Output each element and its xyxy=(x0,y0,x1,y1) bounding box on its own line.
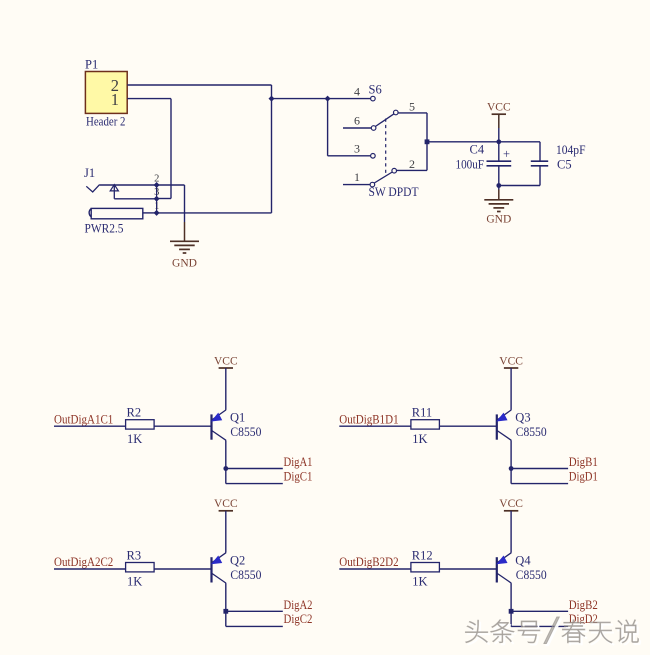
junction at collector outputs xyxy=(509,609,514,614)
transistor Q3 C8550 (PNP) xyxy=(497,410,547,440)
svg-text:2: 2 xyxy=(409,157,415,171)
svg-text:C8550: C8550 xyxy=(516,425,547,439)
wire: junction down xyxy=(225,611,227,626)
power symbol VCC xyxy=(499,498,523,511)
svg-text:DigC2: DigC2 xyxy=(284,612,313,626)
svg-text:R11: R11 xyxy=(412,406,432,420)
svg-text:3: 3 xyxy=(354,142,360,156)
wire: vertical bus from P1 pin2 down to sleeve wire xyxy=(271,85,273,213)
switch pin 5 contact xyxy=(394,110,399,115)
wire: P1 pin 1 right xyxy=(127,98,171,100)
wire: switch output to C5 corner xyxy=(427,141,540,143)
switch pin 3 contact xyxy=(371,154,376,159)
resistor R3 1K xyxy=(126,548,155,588)
wire: net label stub xyxy=(54,425,126,427)
switch pin 1 contact xyxy=(370,182,375,187)
wire: to ground xyxy=(498,186,500,190)
wire: resistor to base xyxy=(154,568,211,570)
switch pin 2 contact xyxy=(392,168,397,173)
transistor Q1 C8550 (PNP) xyxy=(212,410,262,440)
svg-text:DigA2: DigA2 xyxy=(284,598,313,612)
svg-text:1K: 1K xyxy=(127,575,142,589)
svg-text:C8550: C8550 xyxy=(230,425,261,439)
wire: J1 pin2 to ground drop xyxy=(157,184,185,186)
svg-text:Q3: Q3 xyxy=(515,411,530,425)
wire: collector down xyxy=(225,440,227,468)
wire: down to J1 tip contact xyxy=(170,99,172,199)
wire: net label stub xyxy=(339,568,411,570)
wire: C4 bottom stem xyxy=(498,166,500,186)
svg-text:1K: 1K xyxy=(127,432,142,446)
connector J1 (PWR2.5 barrel jack) xyxy=(84,166,157,236)
svg-text:C8550: C8550 xyxy=(230,568,261,582)
ground symbol below C4 xyxy=(484,200,513,226)
wire: J1 sleeve to vertical bus xyxy=(157,212,272,214)
junction J1 pin 1 xyxy=(154,210,160,216)
svg-text:R2: R2 xyxy=(127,406,142,420)
svg-text:DigA1: DigA1 xyxy=(284,455,313,469)
junction at collector outputs xyxy=(223,609,228,614)
wire: resistor to base xyxy=(154,425,211,427)
junction J1 pin 2 xyxy=(154,182,160,188)
svg-text:VCC: VCC xyxy=(499,355,523,367)
svg-text:DigC1: DigC1 xyxy=(284,469,313,483)
switch throw arm pin1-pin2 xyxy=(374,172,392,183)
svg-text:VCC: VCC xyxy=(214,355,238,367)
wire: VCC to emitter xyxy=(225,368,227,410)
capacitor C4 (electrolytic 100uF) xyxy=(456,143,512,172)
wire: VCC to emitter xyxy=(510,511,512,553)
wire: junction down xyxy=(510,611,512,626)
wire: VCC to emitter xyxy=(510,368,512,410)
power symbol VCC (top) xyxy=(487,102,511,115)
wire: collector down xyxy=(225,583,227,611)
junction on vertical bus at switch feed xyxy=(269,96,275,102)
resistor R11 1K xyxy=(411,406,440,446)
svg-text:OutDigB2D2: OutDigB2D2 xyxy=(339,555,398,569)
svg-text:Q2: Q2 xyxy=(230,553,245,567)
resistor R2 1K xyxy=(126,406,155,446)
svg-text:R3: R3 xyxy=(127,548,142,562)
wire: switch pin 6 stub xyxy=(343,127,371,129)
switch pin 6 contact xyxy=(371,126,376,131)
power symbol VCC xyxy=(499,355,523,368)
wire: DigA1 stub xyxy=(226,468,283,470)
switch gang dashed link xyxy=(385,119,387,174)
switch pin 4 contact xyxy=(371,96,376,101)
svg-text:DigD1: DigD1 xyxy=(569,469,598,483)
svg-text:Header 2: Header 2 xyxy=(86,115,126,129)
wire: switch pin 1 stub xyxy=(343,184,370,186)
wire: DigD2 stub xyxy=(511,625,568,627)
svg-text:SW DPDT: SW DPDT xyxy=(369,185,419,199)
wire: DigD1 stub xyxy=(511,483,568,485)
junction J1 pin 3 xyxy=(154,196,160,202)
svg-text:OutDigA2C2: OutDigA2C2 xyxy=(54,555,113,569)
svg-text:1: 1 xyxy=(354,170,360,184)
svg-text:DigB2: DigB2 xyxy=(569,598,598,612)
svg-text:1K: 1K xyxy=(412,432,427,446)
svg-text:Q4: Q4 xyxy=(515,553,531,567)
junction at C4 top xyxy=(496,139,501,144)
wire: VCC to emitter xyxy=(225,511,227,553)
junction at collector outputs xyxy=(509,466,514,471)
wire: net label stub xyxy=(54,568,126,570)
transistor Q2 C8550 (PNP) xyxy=(212,553,262,583)
wire: collector down xyxy=(510,583,512,611)
junction at switch feed xyxy=(325,96,331,102)
svg-text:1K: 1K xyxy=(412,575,427,589)
svg-text:GND: GND xyxy=(172,257,197,269)
svg-text:4: 4 xyxy=(354,85,360,99)
junction at collector outputs xyxy=(223,466,228,471)
wire: P1 pin 2 to vertical bus x=271.5 xyxy=(127,84,271,86)
svg-text:OutDigB1D1: OutDigB1D1 xyxy=(339,412,398,426)
wire: C5 bottom to junction xyxy=(499,185,540,187)
power symbol VCC xyxy=(214,355,238,368)
svg-text:VCC: VCC xyxy=(214,498,238,510)
wire: junction to switch junction xyxy=(272,98,328,100)
svg-text:OutDigA1C1: OutDigA1C1 xyxy=(54,412,113,426)
ground symbol below J1 xyxy=(170,241,199,269)
wire: junction down xyxy=(225,469,227,484)
svg-text:5: 5 xyxy=(409,100,415,114)
wire: resistor to base xyxy=(439,425,496,427)
svg-text:104pF: 104pF xyxy=(556,143,586,157)
svg-text:DigB1: DigB1 xyxy=(569,455,598,469)
svg-text:S6: S6 xyxy=(369,83,382,97)
wire: resistor to base xyxy=(439,568,496,570)
svg-text:C4: C4 xyxy=(470,143,485,157)
wire: net label stub xyxy=(339,425,411,427)
switch throw arm pin6-pin5 xyxy=(376,114,395,127)
wire: J1 pins tie bar xyxy=(156,185,158,213)
wire: pin 5 to right vertical xyxy=(398,112,427,114)
svg-text:6: 6 xyxy=(354,114,360,128)
wire: switch right vertical xyxy=(426,113,428,170)
transistor Q4 C8550 (PNP) xyxy=(497,553,547,583)
svg-text:J1: J1 xyxy=(84,166,95,180)
wire: junction down xyxy=(510,469,512,484)
wire: feed down to pin 3 xyxy=(327,99,329,156)
connector P1 (Header 2) xyxy=(85,58,127,129)
junction at C4 bottom xyxy=(496,183,501,188)
power symbol VCC xyxy=(214,498,238,511)
svg-text:VCC: VCC xyxy=(499,498,523,510)
svg-text:C5: C5 xyxy=(557,158,572,172)
wire: switch pin 3 xyxy=(328,155,371,157)
svg-text:C8550: C8550 xyxy=(516,568,547,582)
wire: C5 top stem xyxy=(539,142,541,161)
svg-text:VCC: VCC xyxy=(487,102,511,114)
capacitor C5 (104pF) xyxy=(531,143,586,172)
svg-text:GND: GND xyxy=(486,213,511,225)
svg-text:P1: P1 xyxy=(85,58,98,72)
wire: C4 top stem xyxy=(498,142,500,161)
wire: ground drop vertical xyxy=(184,185,186,222)
wire: DigA2 stub xyxy=(226,610,283,612)
wire: DigB2 stub xyxy=(511,610,568,612)
svg-text:R12: R12 xyxy=(412,548,433,562)
junction switch output xyxy=(425,139,430,144)
wire: collector down xyxy=(510,440,512,468)
wire: DigC2 stub xyxy=(226,625,283,627)
wire: DigC1 stub xyxy=(226,483,283,485)
svg-text:+: + xyxy=(503,147,510,161)
watermark 头条号/春天说 xyxy=(465,617,640,646)
wire: pin 2 to right vertical xyxy=(397,169,428,171)
wire: C5 bottom stem xyxy=(539,166,541,186)
wire: DigB1 stub xyxy=(511,468,568,470)
wire: switch pin 4 xyxy=(328,98,371,100)
svg-text:1: 1 xyxy=(111,90,119,109)
svg-text:100uF: 100uF xyxy=(456,158,485,172)
resistor R12 1K xyxy=(411,548,440,588)
svg-text:PWR2.5: PWR2.5 xyxy=(85,222,124,236)
wire: VCC stem xyxy=(498,114,500,128)
wire: to J1 pin 3 xyxy=(157,198,171,200)
svg-text:Q1: Q1 xyxy=(230,411,245,425)
